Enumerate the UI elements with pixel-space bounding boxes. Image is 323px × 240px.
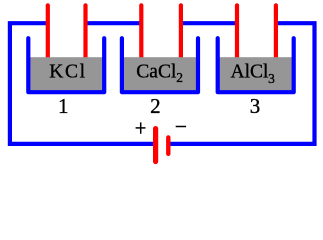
CaCl2 solution (gray) in cell 2: [122, 57, 198, 92]
svg-text:AlCl: AlCl: [231, 62, 270, 83]
beaker of cell 3 (blue outline): [218, 38, 294, 92]
svg-text:KCl: KCl: [49, 61, 86, 82]
electrode: cell 2 right (red): [179, 5, 183, 60]
KCl solution (gray) in cell 1: [28, 57, 104, 92]
label: battery minus sign: [176, 126, 186, 128]
svg-text:3: 3: [250, 94, 261, 118]
battery positive plate (long red bar): [153, 129, 158, 162]
beaker of cell 1 (blue outline): [28, 38, 104, 92]
wire: cell 1 right electrode to cell 2 left electrode: [86, 21, 142, 25]
AlCl3 solution (gray) in cell 3: [218, 57, 294, 92]
wire: from battery positive terminal up left side to cell 1 left electrode: [10, 23, 155, 144]
electrode: cell 3 right (red): [274, 5, 278, 60]
label: battery plus sign: [136, 122, 146, 133]
svg-text:1: 1: [58, 94, 69, 118]
beaker of cell 2 (blue outline): [122, 38, 198, 92]
svg-text:2: 2: [150, 94, 161, 118]
electrode: cell 1 right (red): [83, 5, 87, 60]
electrode: cell 2 left (red): [139, 5, 143, 60]
svg-text:2: 2: [176, 70, 183, 85]
wire: cell 2 right electrode to cell 3 left electrode: [181, 21, 237, 25]
electrode: cell 3 left (red): [235, 5, 239, 60]
battery negative plate (short red bar): [166, 137, 170, 153]
electrode: cell 1 left (red): [46, 5, 50, 60]
wire: cell 3 right electrode down right side to battery negative terminal: [169, 23, 315, 144]
svg-text:3: 3: [268, 71, 275, 86]
svg-text:CaCl: CaCl: [136, 61, 177, 82]
